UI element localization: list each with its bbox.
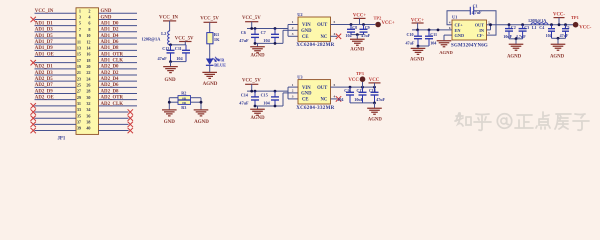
svg-text:19: 19 <box>77 64 81 69</box>
svg-text:AD1_D4: AD1_D4 <box>101 34 119 39</box>
ground AGND (U2 out) <box>350 39 365 45</box>
wire JP1 pin 40 <box>99 130 129 132</box>
svg-text:VCC_5V: VCC_5V <box>200 17 219 22</box>
wire JP1 pin 37 <box>35 123 77 125</box>
wire JP1 pin 33 <box>35 111 77 113</box>
wire JP1 pin 16 <box>99 55 138 57</box>
svg-text:47uF: 47uF <box>239 38 249 43</box>
svg-text:1K: 1K <box>214 37 220 42</box>
svg-text:AGND: AGND <box>194 120 209 125</box>
svg-text:0R: 0R <box>182 101 187 105</box>
no-connect X pin 31 <box>31 103 36 108</box>
svg-text:6: 6 <box>88 21 90 26</box>
svg-text:104: 104 <box>263 101 270 106</box>
resistor R1 <box>207 33 213 44</box>
capacitor C14 <box>254 91 256 97</box>
svg-text:R2: R2 <box>181 91 186 96</box>
svg-text:AGND: AGND <box>250 53 265 58</box>
svg-text:C12: C12 <box>162 46 169 51</box>
svg-text:AD2_D1: AD2_D1 <box>35 65 53 70</box>
wire JP1 pin 24 <box>99 80 138 82</box>
svg-text:NC: NC <box>321 97 328 102</box>
svg-text:VCC-: VCC- <box>553 13 565 18</box>
svg-text:U1: U1 <box>452 15 457 20</box>
svg-text:VIN: VIN <box>302 86 311 91</box>
wire JP1 pin 1 <box>35 12 77 14</box>
svg-text:AD1_D2: AD1_D2 <box>101 28 119 33</box>
svg-text:TP2: TP2 <box>374 15 382 20</box>
connector JP1 body <box>76 8 99 135</box>
svg-text:3: 3 <box>292 95 294 99</box>
svg-text:AGND: AGND <box>439 50 453 55</box>
capacitor C4 <box>551 25 553 29</box>
wire JP1 pin 21 <box>35 74 77 76</box>
svg-text:4.7uF: 4.7uF <box>472 10 482 15</box>
svg-text:L1: L1 <box>532 25 537 30</box>
svg-text:104: 104 <box>430 40 436 45</box>
ground AGND (U1 in) <box>411 48 426 54</box>
wire node under L2 <box>171 44 187 46</box>
wire JP1 pin 6 <box>99 25 138 27</box>
svg-text:2: 2 <box>292 26 294 30</box>
svg-text:AGND: AGND <box>368 118 383 123</box>
svg-text:47uF: 47uF <box>560 33 569 38</box>
svg-text:AD1_D3: AD1_D3 <box>35 28 53 33</box>
test point TP2 <box>375 22 381 28</box>
ground AGND (bridge) <box>194 110 209 116</box>
svg-text:C18: C18 <box>369 89 376 93</box>
svg-text:C9: C9 <box>365 25 370 30</box>
svg-text:104: 104 <box>337 97 343 102</box>
svg-text:AD1_D9: AD1_D9 <box>35 46 53 51</box>
wire ground rail (U2) <box>255 42 283 44</box>
no-connect X pin 37 <box>31 122 36 127</box>
svg-text:VCC_5V: VCC_5V <box>242 16 261 21</box>
wire JP1 pin 36 <box>99 117 129 119</box>
svg-text:26: 26 <box>86 82 90 87</box>
wire JP1 pin 29 <box>35 99 77 101</box>
svg-text:120R@1A: 120R@1A <box>528 18 546 23</box>
no-connect X pin 38 <box>128 122 133 127</box>
svg-text:13: 13 <box>77 45 81 50</box>
wire EN rail <box>412 29 452 31</box>
wire input rail (U3) <box>247 90 288 92</box>
svg-text:AD2_OE: AD2_OE <box>35 96 55 101</box>
svg-text:OUT: OUT <box>317 86 328 91</box>
ground AGND (U3 out) <box>367 108 382 114</box>
wire <box>169 21 171 31</box>
wire IN tie <box>487 29 491 31</box>
svg-text:35: 35 <box>77 113 81 118</box>
svg-text:1: 1 <box>79 8 81 13</box>
capacitor C11 (U1 input) <box>428 30 430 36</box>
svg-text:4.7uF: 4.7uF <box>516 34 526 39</box>
svg-text:AD2_D9: AD2_D9 <box>35 89 53 94</box>
svg-text:120R@1A: 120R@1A <box>142 36 162 41</box>
svg-text:47uF: 47uF <box>406 40 415 45</box>
svg-text:8: 8 <box>88 27 90 32</box>
capacitor C7 <box>274 29 276 35</box>
svg-text:27: 27 <box>77 89 81 94</box>
svg-text:CF-: CF- <box>477 33 485 38</box>
svg-text:VCC_5V: VCC_5V <box>175 37 194 42</box>
pin4 NC stub (U2) <box>331 35 338 37</box>
wire JP1 pin 4 <box>99 18 138 20</box>
svg-text:AD1_OE: AD1_OE <box>35 52 55 57</box>
svg-text:AD2_D5: AD2_D5 <box>35 77 53 82</box>
svg-text:AGND: AGND <box>507 54 522 59</box>
svg-text:VCC_5V: VCC_5V <box>242 79 261 84</box>
pin4 NC stub (U3) <box>331 98 338 100</box>
capacitor C9 <box>363 25 365 30</box>
svg-text:C7: C7 <box>261 30 266 35</box>
svg-text:47uF: 47uF <box>239 101 249 106</box>
wire VIN/CE jog (U2) <box>287 25 289 37</box>
svg-text:40: 40 <box>86 126 90 131</box>
svg-text:NC: NC <box>321 35 328 40</box>
test point TP1 <box>573 22 579 28</box>
svg-text:2: 2 <box>88 8 90 13</box>
wire JP1 pin 23 <box>35 80 77 82</box>
wire JP1 pin 11 <box>35 43 77 45</box>
wire JP1 pin 34 <box>99 111 129 113</box>
svg-text:2: 2 <box>292 89 294 93</box>
no-connect X pin 3 <box>31 17 36 22</box>
ground AGND (LED) <box>202 72 217 78</box>
svg-text:17: 17 <box>77 58 81 63</box>
svg-text:22: 22 <box>86 70 90 75</box>
svg-text:104: 104 <box>263 38 270 43</box>
wire cap rail (C2C3) <box>509 38 523 40</box>
svg-text:C11: C11 <box>175 46 182 51</box>
svg-text:C4: C4 <box>539 25 544 30</box>
watermark zhihu <box>455 112 589 130</box>
svg-text:L2: L2 <box>161 31 166 36</box>
wire JP1 pin 18 <box>99 62 138 64</box>
wire JP1 pin 14 <box>99 49 138 51</box>
svg-text:AD1_D1: AD1_D1 <box>35 22 53 27</box>
no-connect X pin 39 <box>31 128 36 133</box>
svg-text:VCC_IN: VCC_IN <box>35 9 54 14</box>
wire left node <box>169 97 178 99</box>
svg-text:10: 10 <box>86 33 90 38</box>
no-connect X pin 35 <box>31 115 36 120</box>
wire JP1 pin 2 <box>99 12 138 14</box>
svg-text:AGND: AGND <box>350 47 365 52</box>
svg-text:C1: C1 <box>473 4 478 9</box>
svg-text:36: 36 <box>86 113 90 118</box>
wire JP1 pin 15 <box>35 55 77 57</box>
capacitor C2 <box>508 25 510 29</box>
svg-text:32: 32 <box>86 101 90 106</box>
svg-text:C6: C6 <box>241 30 246 35</box>
wire JP1 pin 9 <box>35 37 77 39</box>
resistor R3 <box>178 100 191 104</box>
ground AGND (C4C5) <box>551 44 566 50</box>
svg-text:CE: CE <box>302 97 309 102</box>
svg-text:C8: C8 <box>352 25 357 30</box>
wire U1 OUT rail <box>487 24 574 26</box>
no-connect X pin 34 <box>128 109 133 114</box>
svg-text:AD2_CLK: AD2_CLK <box>101 102 124 107</box>
svg-text:R3: R3 <box>181 105 186 110</box>
wire JP1 pin 38 <box>99 123 129 125</box>
svg-text:C11: C11 <box>430 32 437 37</box>
capacitor C11 <box>185 45 187 51</box>
svg-text:23: 23 <box>77 76 81 81</box>
ground AGND (U1 gnd) <box>437 41 452 47</box>
svg-text:C16: C16 <box>344 89 351 93</box>
svg-text:39: 39 <box>77 126 81 131</box>
wire JP1 pin 39 <box>35 130 77 132</box>
svg-text:AD1_D8: AD1_D8 <box>101 46 119 51</box>
wire flying-cap loop <box>447 11 496 35</box>
svg-text:37: 37 <box>77 119 81 124</box>
capacitor C18 <box>374 87 376 92</box>
wire cap ground rail <box>171 61 187 63</box>
svg-text:AD1_OTR: AD1_OTR <box>101 52 124 57</box>
wire ground rail (U3) <box>255 105 283 107</box>
svg-text:U2: U2 <box>297 12 302 17</box>
wire <box>209 44 211 59</box>
capacitor C17 <box>362 87 364 92</box>
svg-text:AD1_D0: AD1_D0 <box>101 22 119 27</box>
svg-text:AD2_D0: AD2_D0 <box>101 65 119 70</box>
svg-text:7: 7 <box>79 27 81 32</box>
svg-text:VIN: VIN <box>302 23 311 28</box>
capacitor C10 <box>417 30 419 36</box>
capacitor C8 <box>350 25 352 30</box>
svg-text:16: 16 <box>86 52 90 57</box>
svg-text:12: 12 <box>86 39 90 44</box>
svg-text:AD2_OTR: AD2_OTR <box>101 96 124 101</box>
ground AGND (C2C3) <box>509 44 524 50</box>
wire GND pin (U3) <box>283 92 298 94</box>
wire JP1 pin 10 <box>99 37 138 39</box>
svg-text:AD1_CLK: AD1_CLK <box>101 59 124 64</box>
svg-text:CE: CE <box>302 35 309 40</box>
svg-text:XC6204-282MR: XC6204-282MR <box>296 43 334 48</box>
test point TP3 <box>360 76 366 82</box>
svg-text:VCC+: VCC+ <box>382 21 395 26</box>
wire JP1 pin 31 <box>35 105 77 107</box>
capacitor C5 <box>565 25 567 29</box>
inductor L2 <box>168 31 170 45</box>
svg-text:JP1: JP1 <box>58 136 66 141</box>
wire JP1 pin 30 <box>99 99 138 101</box>
wire JP1 pin 20 <box>99 68 138 70</box>
svg-text:XC6204-332MR: XC6204-332MR <box>296 106 334 111</box>
no-connect X pin 40 <box>128 128 133 133</box>
svg-text:5: 5 <box>334 20 336 24</box>
ground GND <box>163 67 178 73</box>
svg-text:GND: GND <box>301 92 312 97</box>
svg-text:47uF: 47uF <box>361 33 370 38</box>
svg-text:4: 4 <box>334 32 336 36</box>
svg-text:5: 5 <box>334 83 336 87</box>
svg-text:38: 38 <box>86 119 90 124</box>
svg-text:C17: C17 <box>357 89 364 93</box>
wire U3 OUT <box>331 86 375 88</box>
wire U2 OUT <box>331 24 376 26</box>
svg-text:AD2_D7: AD2_D7 <box>35 83 53 88</box>
svg-text:25: 25 <box>77 82 81 87</box>
capacitor C1 <box>469 7 471 15</box>
svg-text:30: 30 <box>86 95 90 100</box>
capacitor C3 <box>522 25 524 29</box>
wire JP1 pin 35 <box>35 117 77 119</box>
ground AGND (U2) <box>257 43 259 46</box>
wire cap rail (U1 in) <box>418 45 429 47</box>
svg-text:U3: U3 <box>297 74 303 79</box>
resistor R2 <box>178 96 191 100</box>
capacitor C12 <box>170 45 172 51</box>
svg-text:21: 21 <box>77 70 81 75</box>
wire JP1 pin 7 <box>35 31 77 33</box>
wire JP1 pin 17 <box>35 62 77 64</box>
svg-text:AGND: AGND <box>550 54 565 59</box>
wire JP1 pin 26 <box>99 86 138 88</box>
svg-text:5: 5 <box>79 21 81 26</box>
svg-text:3: 3 <box>292 32 294 36</box>
svg-text:C5: C5 <box>565 25 570 30</box>
svg-text:OUT: OUT <box>317 23 328 28</box>
wire right node <box>191 97 202 99</box>
svg-text:C3: C3 <box>524 25 529 30</box>
capacitor C15 <box>274 91 276 97</box>
svg-text:AD1_D7: AD1_D7 <box>35 40 53 45</box>
no-connect X pin 33 <box>31 109 36 114</box>
svg-text:10uF: 10uF <box>354 97 363 102</box>
inductor L1 <box>531 23 548 25</box>
svg-text:C14: C14 <box>241 93 249 98</box>
wire cap rail (U2 out) <box>351 34 364 36</box>
wire JP1 pin 8 <box>99 31 138 33</box>
capacitor C16 <box>349 87 351 92</box>
ground AGND (U3) <box>257 106 259 109</box>
svg-text:AD2_D3: AD2_D3 <box>35 71 53 76</box>
wire <box>209 65 211 72</box>
no-connect X pin 17 <box>31 60 36 65</box>
svg-text:C15: C15 <box>261 93 268 98</box>
wire GND pin to ground <box>444 34 452 36</box>
svg-text:1: 1 <box>292 20 294 24</box>
wire JP1 pin 3 <box>35 18 77 20</box>
svg-text:BLUE: BLUE <box>214 63 226 68</box>
svg-text:AD1_D6: AD1_D6 <box>101 40 119 45</box>
svg-text:104: 104 <box>176 56 183 61</box>
LED PWR BLUE <box>206 59 214 65</box>
regulator U2 body <box>298 17 331 41</box>
svg-text:47uF: 47uF <box>158 56 168 61</box>
svg-text:GND: GND <box>101 15 112 20</box>
svg-text:AD2_D6: AD2_D6 <box>101 83 119 88</box>
ground GND (bridge) <box>162 110 177 116</box>
wire JP1 pin 25 <box>35 86 77 88</box>
svg-text:AD2_D8: AD2_D8 <box>101 89 119 94</box>
wire cap rail (C4C5) <box>552 37 566 39</box>
svg-text:31: 31 <box>77 101 81 106</box>
wire cap rail (U3 out) <box>350 102 375 104</box>
svg-text:9: 9 <box>79 33 81 38</box>
wire JP1 pin 28 <box>99 93 138 95</box>
svg-text:0R: 0R <box>182 96 187 100</box>
charge pump U1 body <box>452 20 487 40</box>
svg-text:20: 20 <box>86 64 90 69</box>
svg-text:10uF: 10uF <box>503 34 512 39</box>
svg-text:VCC-: VCC- <box>579 26 591 31</box>
svg-text:AGND: AGND <box>250 116 265 121</box>
wire JP1 pin 32 <box>99 105 138 107</box>
svg-text:47uF: 47uF <box>376 97 385 102</box>
svg-text:GND: GND <box>164 120 176 125</box>
wire JP1 pin 22 <box>99 74 138 76</box>
svg-text:104: 104 <box>345 33 351 38</box>
svg-text:18: 18 <box>86 58 90 63</box>
svg-text:GND: GND <box>101 9 112 14</box>
svg-text:GND: GND <box>164 78 176 83</box>
svg-text:1: 1 <box>292 83 294 87</box>
svg-text:29: 29 <box>77 95 81 100</box>
svg-text:104: 104 <box>546 33 552 38</box>
svg-text:VCC_IN: VCC_IN <box>159 16 178 21</box>
capacitor C6 <box>254 29 256 35</box>
svg-text:GND: GND <box>455 33 465 38</box>
wire JP1 pin 5 <box>35 25 77 27</box>
wire JP1 pin 12 <box>99 43 138 45</box>
svg-text:28: 28 <box>86 89 90 94</box>
regulator U3 body <box>298 80 331 104</box>
svg-text:33: 33 <box>77 107 81 112</box>
wire VIN/CE jog (U3) <box>287 87 289 99</box>
wire JP1 pin 13 <box>35 49 77 51</box>
svg-text:C10: C10 <box>407 32 414 37</box>
svg-text:C2: C2 <box>511 25 516 30</box>
wire JP1 pin 19 <box>35 68 77 70</box>
svg-text:SGM3204YN6G: SGM3204YN6G <box>451 44 488 49</box>
svg-text:AD1_D5: AD1_D5 <box>35 34 53 39</box>
svg-text:GND: GND <box>301 29 312 34</box>
svg-text:AGND: AGND <box>410 58 425 63</box>
svg-text:AD2_D2: AD2_D2 <box>101 71 119 76</box>
svg-text:VCC: VCC <box>348 78 359 83</box>
svg-text:AGND: AGND <box>203 82 218 87</box>
svg-text:TP1: TP1 <box>571 15 579 20</box>
svg-text:4: 4 <box>334 95 336 99</box>
wire input rail (U2) <box>247 28 288 30</box>
svg-text:15: 15 <box>77 52 81 57</box>
svg-text:3: 3 <box>79 15 81 20</box>
svg-text:11: 11 <box>77 39 81 44</box>
no-connect X pin 36 <box>128 115 133 120</box>
svg-text:TP3: TP3 <box>356 71 365 76</box>
wire JP1 pin 27 <box>35 93 77 95</box>
wire GND pin (U2) <box>283 29 298 31</box>
svg-text:AD2_D4: AD2_D4 <box>101 77 119 82</box>
